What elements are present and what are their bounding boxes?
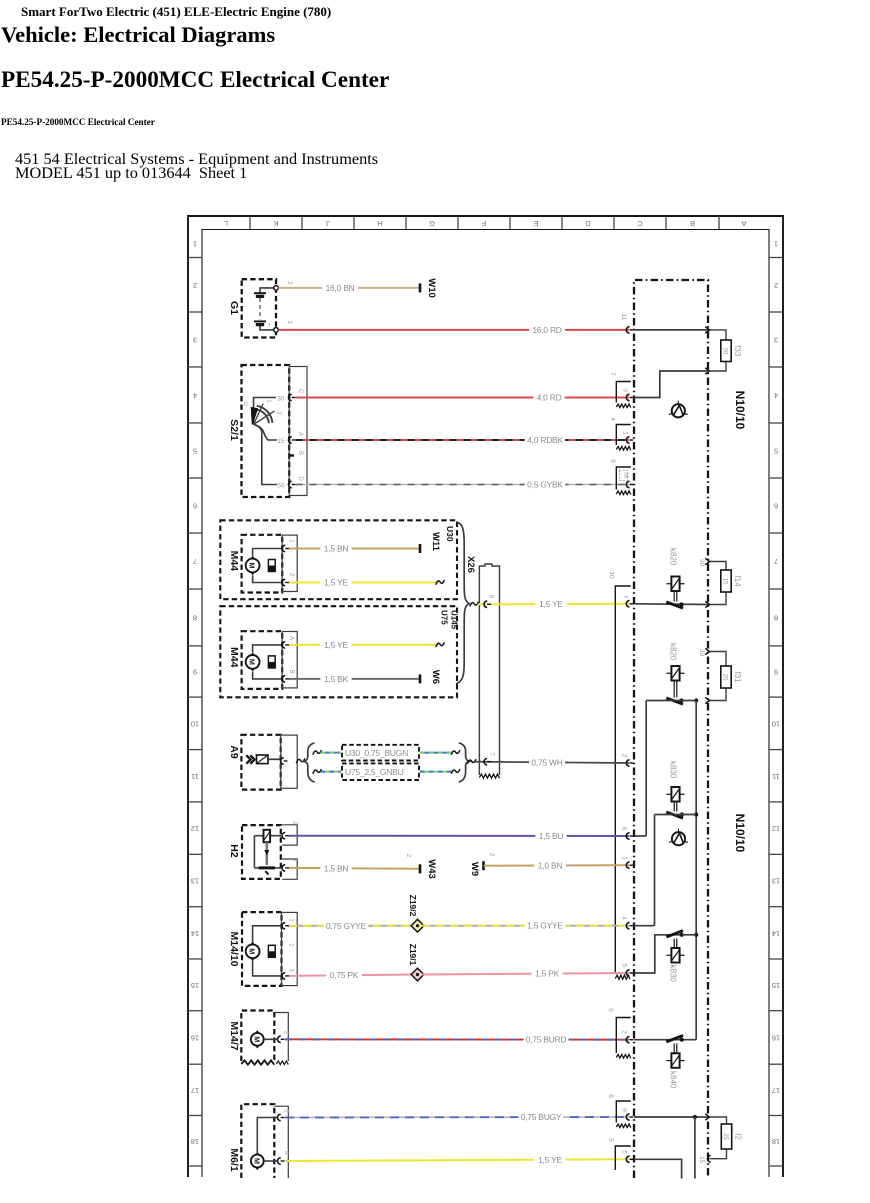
svg-text:4: 4	[283, 1151, 289, 1155]
svg-text:3: 3	[622, 388, 629, 392]
wire 16,0 RD G1 pin1 to N10/10 pin11	[278, 329, 629, 331]
svg-text:F: F	[481, 219, 486, 228]
relay contact k830 (2)	[666, 931, 683, 937]
svg-text:17: 17	[772, 1086, 780, 1095]
wire 16,0 BN G1 pin2 to W10	[278, 287, 419, 289]
svg-text:1: 1	[286, 320, 293, 324]
N10/10 pin 4	[626, 923, 629, 929]
svg-text:5: 5	[621, 964, 628, 968]
svg-text:7: 7	[193, 557, 197, 566]
svg-text:B: B	[297, 451, 303, 455]
svg-text:2: 2	[288, 573, 294, 577]
svg-text:14: 14	[772, 929, 780, 938]
wire 1,5 BN M44 to W11	[289, 548, 419, 550]
wire 1,5 GYYE Z19/2 to N10/10 pin4	[422, 925, 629, 927]
svg-text:G1: G1	[228, 301, 240, 315]
horn H2	[228, 825, 297, 880]
splice Z19/2	[408, 895, 424, 932]
fuse f14	[710, 562, 727, 571]
svg-text:7: 7	[774, 557, 778, 566]
svg-text:f33: f33	[733, 345, 742, 357]
svg-text:0,75 WH: 0,75 WH	[531, 758, 562, 768]
svg-text:6: 6	[774, 502, 778, 511]
svg-text:6: 6	[621, 827, 628, 831]
wire 0,75 GYYE to splice Z19/2	[289, 925, 413, 927]
wire 0,5 GYBK S2/1-D to N10/10 pin38	[296, 484, 629, 486]
svg-text:U145: U145	[450, 610, 459, 630]
wire k820(2) to riser	[646, 700, 696, 702]
svg-text:16: 16	[191, 1034, 199, 1043]
brace joining M44 circuits	[456, 522, 469, 684]
heater flap motor M14/7	[228, 1011, 289, 1065]
svg-text:N10/10: N10/10	[733, 391, 747, 430]
svg-text:30: 30	[698, 559, 705, 567]
svg-text:M44: M44	[228, 647, 240, 668]
wire 0,75 PK to splice Z19/1	[289, 975, 413, 976]
svg-text:16,0 RD: 16,0 RD	[532, 325, 561, 335]
svg-text:M: M	[248, 948, 257, 954]
svg-text:H: H	[377, 219, 382, 228]
connector X26	[465, 556, 500, 778]
svg-text:M6/1: M6/1	[228, 1148, 240, 1172]
svg-text:14: 14	[191, 929, 199, 938]
svg-text:1: 1	[265, 399, 271, 403]
svg-text:C: C	[637, 219, 643, 228]
svg-text:k840: k840	[669, 1071, 678, 1089]
svg-text:2: 2	[288, 943, 294, 947]
svg-text:A: A	[288, 636, 294, 640]
wire 1,5 PK Z19/1 to N10/10 pin5	[422, 973, 629, 975]
riser bus x696	[695, 701, 697, 1040]
svg-text:11: 11	[620, 314, 627, 321]
svg-text:Z19/1: Z19/1	[408, 944, 418, 966]
fuse f31	[710, 652, 727, 667]
svg-text:C: C	[297, 389, 303, 394]
wire pin9 to f2	[634, 1116, 710, 1118]
svg-text:10: 10	[772, 719, 780, 728]
svg-text:2: 2	[621, 754, 628, 758]
wire pin2 to k840	[634, 1039, 696, 1041]
svg-text:8: 8	[609, 459, 616, 463]
svg-text:1,5 BU: 1,5 BU	[539, 831, 564, 841]
wire 1,5 YE to N10/10 pin5	[285, 1159, 629, 1161]
svg-text:12: 12	[191, 824, 199, 833]
N10/10 pin 2 + bracket 9	[616, 1018, 631, 1054]
wire 1,5 YE to N10/10 pin7	[470, 602, 479, 607]
N10/10 pin 11	[626, 327, 629, 333]
svg-text:1: 1	[622, 431, 629, 435]
wire f33 bottom to pin3	[634, 371, 710, 398]
svg-text:18: 18	[191, 1137, 199, 1146]
svg-text:13: 13	[191, 877, 199, 886]
border frame outer	[188, 216, 783, 1177]
svg-text:+: +	[268, 323, 272, 329]
svg-text:2: 2	[286, 281, 293, 285]
relay contact k830 (1)	[671, 787, 679, 802]
svg-text:M: M	[248, 563, 257, 569]
svg-text:1,5 YE: 1,5 YE	[538, 1155, 562, 1165]
svg-text:f2: f2	[733, 1133, 742, 1140]
svg-text:4: 4	[621, 916, 628, 920]
wire 4,0 RDBK S2/1-A to N10/10 pin1	[296, 439, 629, 441]
brace { for A9 pair	[304, 743, 314, 782]
svg-text:W10: W10	[426, 278, 437, 298]
svg-text:2: 2	[774, 281, 778, 290]
svg-text:2: 2	[621, 1030, 628, 1034]
svg-text:10: 10	[191, 719, 199, 728]
svg-text:50: 50	[277, 482, 285, 489]
svg-text:W43: W43	[426, 859, 437, 879]
wire pin6 to riser	[634, 835, 646, 837]
svg-text:9: 9	[621, 1108, 628, 1112]
ground point W10	[419, 283, 422, 292]
svg-text:3: 3	[288, 968, 294, 972]
fan motor M6/1	[228, 1104, 289, 1178]
fuse f33	[710, 330, 727, 340]
N10/10 pin 1 w/ bracket 4	[616, 425, 631, 446]
svg-text:7: 7	[609, 372, 616, 376]
battery G1	[228, 279, 293, 337]
blower motor M44 (2)	[228, 631, 297, 689]
twisted wire U75 2,5 GNBU	[313, 769, 322, 774]
svg-text:15: 15	[772, 981, 780, 990]
svg-text:0,5 GYBK: 0,5 GYBK	[527, 480, 563, 490]
svg-text:1,5 BK: 1,5 BK	[324, 674, 349, 684]
svg-text:2: 2	[283, 1031, 289, 1035]
wire 1,5 BK M44-B to W6	[289, 678, 419, 680]
svg-text:0,75 BUGY: 0,75 BUGY	[521, 1112, 562, 1122]
svg-text:W9: W9	[469, 862, 480, 876]
svg-text:M: M	[252, 1036, 261, 1042]
X26 pin 7	[484, 759, 487, 765]
svg-text:8: 8	[607, 1094, 614, 1098]
riser k830 to pin4	[654, 815, 656, 926]
svg-text:25: 25	[722, 1133, 729, 1140]
svg-text:4,0 RDBK: 4,0 RDBK	[527, 435, 563, 445]
wire 0,75 BURD to N10/10 pin2	[285, 1038, 629, 1040]
svg-text:11: 11	[772, 772, 780, 781]
svg-text:30: 30	[722, 347, 729, 354]
svg-text:N10/10: N10/10	[733, 814, 747, 853]
svg-text:U75_2,5_GNBU: U75_2,5_GNBU	[345, 767, 404, 777]
svg-text:Z19/2: Z19/2	[408, 895, 418, 917]
svg-text:M14/10: M14/10	[228, 931, 240, 966]
svg-text:30: 30	[277, 395, 285, 402]
svg-text:X26: X26	[465, 556, 476, 573]
svg-text:3: 3	[774, 336, 778, 345]
svg-text:16,0 BN: 16,0 BN	[326, 283, 355, 293]
svg-text:9: 9	[193, 668, 197, 677]
brace } for A9 pair	[459, 743, 469, 782]
svg-text:2: 2	[276, 411, 282, 415]
N10/10 pin 5	[626, 970, 629, 976]
svg-text:k820: k820	[669, 548, 678, 566]
svg-text:30: 30	[698, 649, 705, 657]
wire 1,5 YE M44-2 (to X26)	[289, 582, 436, 584]
wire 4,0 RD S2/1-C to N10/10 pin3	[296, 397, 629, 399]
svg-text:13: 13	[772, 877, 780, 886]
svg-text:M: M	[252, 1158, 261, 1164]
svg-text:1: 1	[774, 240, 778, 249]
ground point W9	[482, 861, 485, 870]
svg-text:9: 9	[607, 1008, 614, 1012]
svg-text:G: G	[429, 219, 435, 228]
svg-text:H2: H2	[228, 844, 240, 858]
svg-text:0,75 GYYE: 0,75 GYYE	[326, 921, 367, 931]
frame grid letters	[224, 219, 747, 228]
wire 1,5 BU H2 to N10/10 pin6	[289, 835, 629, 837]
svg-text:A9: A9	[228, 745, 240, 759]
riser x694 stub	[694, 1117, 696, 1179]
pin15 cup	[707, 1156, 710, 1163]
svg-text:k820: k820	[669, 643, 678, 661]
svg-text:M14/7: M14/7	[228, 1021, 240, 1050]
N10/10 pin 9 + bracket 8	[616, 1101, 631, 1123]
svg-text:2: 2	[193, 281, 197, 290]
ignition switch S2/1	[228, 365, 307, 497]
relay contact k820 (1)	[671, 577, 679, 592]
svg-text:7: 7	[488, 752, 494, 756]
svg-text:4: 4	[609, 417, 616, 421]
svg-text:2: 2	[283, 1109, 289, 1113]
wire pin5 riser stub	[634, 1159, 682, 1178]
fuse f2	[710, 1117, 727, 1124]
svg-text:1,0 BN: 1,0 BN	[538, 861, 563, 871]
svg-text:W11: W11	[430, 532, 441, 552]
svg-text:20: 20	[722, 674, 729, 681]
svg-text:k830: k830	[669, 761, 678, 779]
N10/10 pin 1 (lower)	[626, 862, 629, 868]
svg-text:0,75 PK: 0,75 PK	[330, 970, 359, 980]
svg-text:10: 10	[608, 571, 615, 579]
svg-text:1,5 YE: 1,5 YE	[324, 578, 348, 588]
svg-text:5: 5	[774, 447, 778, 456]
svg-text:15: 15	[698, 1156, 705, 1164]
svg-text:M44: M44	[228, 551, 240, 572]
wire pin7 to k820 contact	[634, 603, 710, 606]
svg-text:5: 5	[621, 1150, 628, 1154]
splice Z19/1	[408, 944, 424, 981]
svg-text:9: 9	[774, 668, 778, 677]
svg-text:1: 1	[621, 856, 628, 860]
N10/10 pin 2	[626, 760, 629, 766]
wire 1,5 BN H2 to W43	[289, 867, 419, 870]
wire pin5 riser to k830(2)	[634, 935, 682, 973]
blower motor M44 (1)	[228, 535, 297, 593]
terminal circle (lower)	[672, 832, 685, 845]
svg-text:D: D	[585, 219, 591, 228]
svg-text:5: 5	[193, 447, 197, 456]
svg-text:E: E	[533, 219, 538, 228]
svg-text:16: 16	[772, 1034, 780, 1043]
svg-text:7: 7	[622, 595, 629, 599]
wire pin11 to f33 top	[634, 329, 710, 331]
svg-text:6: 6	[488, 595, 494, 599]
svg-text:A: A	[741, 219, 746, 228]
ground point W43	[419, 864, 422, 873]
relay contact k820 (2)	[671, 666, 679, 681]
svg-text:1,5 YE: 1,5 YE	[324, 640, 348, 650]
svg-text:1: 1	[288, 539, 294, 543]
svg-text:1: 1	[193, 240, 197, 249]
svg-text:1: 1	[288, 918, 294, 922]
frame grid numbers	[191, 240, 780, 1146]
terminal circle (upper)	[672, 404, 685, 417]
svg-text:B: B	[288, 669, 294, 673]
svg-text:17: 17	[191, 1086, 199, 1095]
frame grid dividers	[188, 216, 783, 1166]
svg-text:15: 15	[191, 981, 199, 990]
svg-text:B: B	[690, 219, 695, 228]
svg-text:1,5 YE: 1,5 YE	[539, 599, 563, 609]
svg-text:K: K	[273, 219, 278, 228]
svg-text:S2/1: S2/1	[228, 419, 240, 441]
ground point W6	[419, 674, 422, 683]
svg-text:k830: k830	[669, 965, 678, 983]
svg-text:2: 2	[405, 854, 411, 858]
component A9	[228, 735, 297, 790]
N10/10 pin 3 w/ bracket 7	[616, 382, 631, 403]
svg-text:11: 11	[191, 772, 199, 781]
N10/10 pin 5 + bracket 5	[615, 1146, 631, 1170]
svg-text:0,75 BURD: 0,75 BURD	[526, 1035, 567, 1045]
wire 1,5 YE M44-A (to X26)	[289, 644, 436, 646]
twisted wire U30 0,75 BUGN	[313, 750, 322, 755]
wire 0,75 WH to N10/10 pin2	[467, 759, 476, 764]
svg-text:1,5 BN: 1,5 BN	[324, 544, 349, 554]
N10/10 pin 38 w/ bracket 8	[616, 467, 631, 490]
svg-text:6: 6	[193, 502, 197, 511]
svg-text:0: 0	[244, 401, 248, 408]
svg-text:18: 18	[772, 1137, 780, 1146]
riser pin6 feed x646	[645, 701, 647, 837]
svg-text:L: L	[224, 219, 228, 228]
svg-text:8: 8	[774, 614, 778, 623]
svg-text:15: 15	[722, 578, 729, 585]
svg-text:2: 2	[488, 853, 494, 857]
subsystem box U75/U145	[220, 606, 457, 697]
svg-text:12: 12	[772, 824, 780, 833]
ground point W11	[419, 544, 422, 553]
svg-text:A: A	[297, 432, 303, 436]
svg-text:15: 15	[277, 438, 285, 445]
svg-text:3: 3	[193, 336, 197, 345]
heater flap motor M14/10	[228, 912, 297, 986]
svg-text:38: 38	[623, 472, 629, 478]
wire 1,0 BN W9 to N10/10 pin1	[484, 864, 630, 867]
relay contact k840	[666, 1036, 683, 1042]
svg-text:4: 4	[193, 391, 197, 400]
svg-text:1,5 PK: 1,5 PK	[535, 969, 560, 979]
control unit N10/10 box	[634, 280, 708, 1178]
N10/10 pin 7 + bracket 10	[615, 586, 631, 973]
svg-text:f14: f14	[733, 575, 742, 587]
subsystem box U30	[220, 520, 457, 599]
X26 pin 6	[484, 601, 487, 607]
svg-text:D: D	[297, 476, 303, 481]
svg-text:f31: f31	[733, 671, 742, 683]
svg-text:J: J	[326, 219, 330, 228]
svg-text:4,0 RD: 4,0 RD	[537, 393, 562, 403]
svg-text:U30_0,75_BUGN: U30_0,75_BUGN	[345, 748, 408, 758]
N10/10 pin 6	[626, 833, 629, 839]
svg-text:-: -	[268, 291, 270, 297]
svg-text:U30: U30	[445, 526, 455, 542]
svg-text:4: 4	[774, 391, 778, 400]
svg-text:1,5 GYYE: 1,5 GYYE	[527, 921, 563, 931]
svg-text:W6: W6	[430, 670, 441, 684]
svg-text:M: M	[248, 659, 257, 665]
svg-text:U75: U75	[440, 610, 449, 625]
wire 0,75 BUGY to N10/10 pin9	[285, 1116, 629, 1119]
svg-text:8: 8	[193, 614, 197, 623]
svg-text:5: 5	[607, 1138, 614, 1142]
svg-text:1,5 BN: 1,5 BN	[324, 863, 349, 873]
